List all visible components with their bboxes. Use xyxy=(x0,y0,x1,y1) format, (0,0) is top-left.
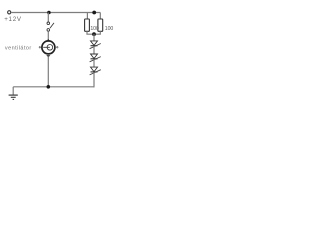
wire resistor left drop xyxy=(86,13,88,20)
resistor R2 xyxy=(98,19,103,31)
node junction resistor bottom xyxy=(92,32,96,36)
switch S1 xyxy=(47,22,54,31)
node junction resistor tap xyxy=(92,11,96,15)
wire switch drop xyxy=(47,13,49,23)
node junction motor bottom xyxy=(47,85,51,89)
wire D2-D3 xyxy=(93,59,95,67)
terminal +12V xyxy=(8,11,11,14)
diode D1 xyxy=(90,41,101,49)
wire motor to bottom rail xyxy=(47,57,49,87)
svg-text:+12V: +12V xyxy=(4,16,22,23)
ground xyxy=(9,95,18,99)
wire switch to motor xyxy=(47,31,49,41)
wire bottom rail xyxy=(13,86,94,88)
diode D3 xyxy=(90,67,101,75)
wire D1-D2 xyxy=(93,46,95,54)
wire resistor right drop xyxy=(99,13,101,20)
wire resistor bottoms join xyxy=(87,31,100,34)
node junction top-switch xyxy=(47,11,51,15)
wire diode chain to bottom rail xyxy=(93,72,96,87)
wire ground drop xyxy=(12,87,14,95)
svg-text:100: 100 xyxy=(105,26,114,32)
diode D2 xyxy=(90,54,101,62)
svg-text:ventilátor: ventilátor xyxy=(5,45,32,51)
wire to diode chain xyxy=(93,34,95,41)
motor M1 (fan) xyxy=(39,39,58,57)
resistor R1 xyxy=(85,19,90,31)
wire top rail xyxy=(11,12,100,14)
svg-text:100: 100 xyxy=(90,26,99,32)
